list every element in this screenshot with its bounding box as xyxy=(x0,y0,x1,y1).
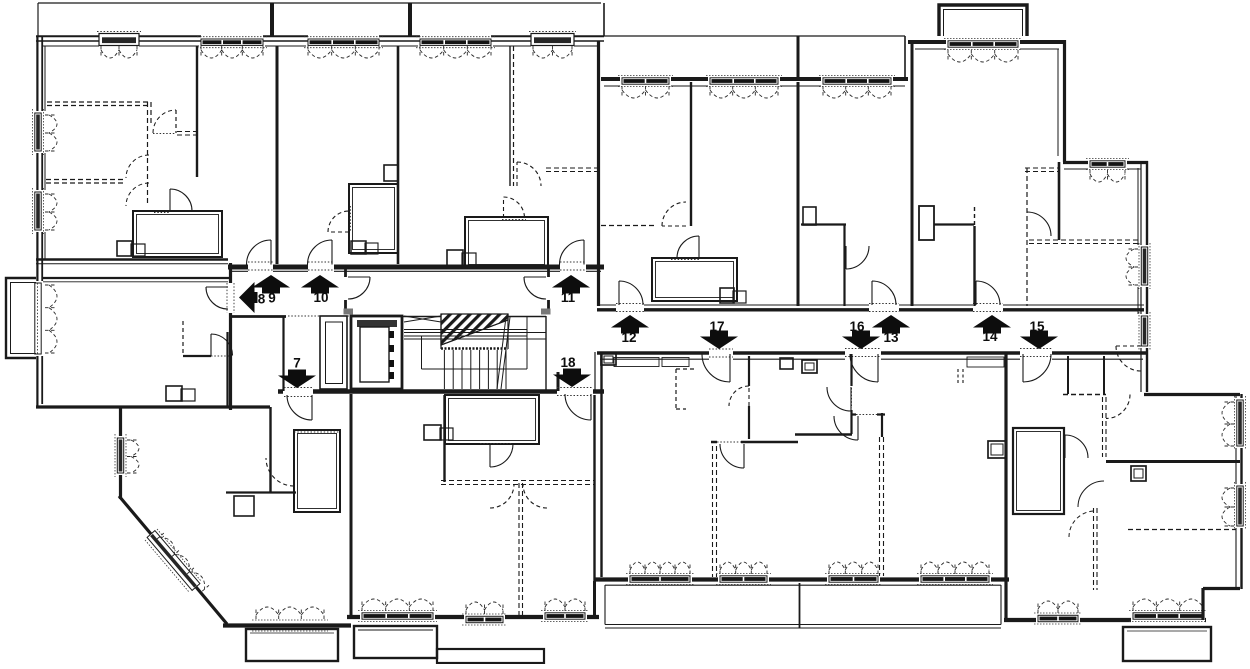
window apt16 bottom 2 xyxy=(921,576,989,582)
apt9 dashed closet wall xyxy=(148,102,152,206)
corridor west end wall xyxy=(229,263,232,410)
apt15 bottom wall xyxy=(1004,618,1206,622)
apt18 small box xyxy=(424,425,441,440)
diagonal window frame xyxy=(147,531,200,591)
apt11 dashed wall xyxy=(546,168,601,172)
casement arcs left-lower xyxy=(127,440,139,473)
apt8 hall top wall xyxy=(43,277,230,279)
svg-text:14: 14 xyxy=(982,329,998,344)
casement arcs SE-1 xyxy=(1222,402,1234,446)
window apt17 bottom 2 xyxy=(720,576,767,582)
apt17 dashed partition xyxy=(713,446,717,577)
apt17 hall wall xyxy=(748,356,750,439)
svg-text:8: 8 xyxy=(258,292,266,307)
apt14 dashed wall mid xyxy=(1029,240,1138,244)
stair top edge xyxy=(402,316,546,318)
casement arcs balcony door xyxy=(45,285,57,353)
stair cross mark xyxy=(404,316,441,322)
corridor top wall left section xyxy=(228,265,604,270)
window apt15 bottom 1 xyxy=(1038,615,1078,621)
apt15 dashed partition v lower xyxy=(1094,508,1098,590)
terrace divider tick 1 xyxy=(270,3,274,36)
corridor top wall right section xyxy=(597,308,1144,311)
apt18 bottom wall xyxy=(347,615,599,619)
window SE right 2 xyxy=(1237,486,1243,526)
casement arcs 16-2 xyxy=(921,562,989,574)
arrow door 7 xyxy=(278,370,316,389)
link corridor wall face xyxy=(594,352,596,390)
exterior wall top-mid section xyxy=(601,77,908,81)
apt15 hall door arc 2 xyxy=(1069,511,1095,537)
svg-text:17: 17 xyxy=(709,319,724,334)
apt15 hall door arc 1 xyxy=(1078,481,1104,507)
left-lower exterior wall xyxy=(119,407,122,499)
bottom wall apts 17-16 xyxy=(594,577,1009,581)
stair treads xyxy=(444,350,506,389)
apt14 door swing xyxy=(1027,212,1051,236)
svg-text:18: 18 xyxy=(560,355,576,370)
casement arcs apt7 bottom xyxy=(256,607,324,619)
casement arcs W5 xyxy=(533,46,572,58)
window on step wall xyxy=(1090,161,1125,167)
window mid-3 xyxy=(823,78,891,84)
exterior wall top-left second face xyxy=(36,40,604,42)
elevator car xyxy=(360,327,389,382)
stair vestibule wall right xyxy=(547,266,550,314)
corridor bottom wall inner face right xyxy=(600,358,1143,360)
balcony below apt18 right xyxy=(437,649,544,663)
corridor top wall right outer face xyxy=(597,304,1144,306)
window W4 xyxy=(420,39,491,45)
apt14 dashed partition v xyxy=(1026,168,1028,306)
stair landing hatched xyxy=(441,314,508,345)
apt12 bathroom door swing xyxy=(677,236,699,258)
apt15 dashed partition h xyxy=(1128,529,1236,531)
apt8 bottom / apt7 top wall xyxy=(36,405,270,408)
apt9 closet arc 3 xyxy=(153,110,176,133)
svg-text:10: 10 xyxy=(313,290,328,305)
apt9 bathroom xyxy=(133,211,222,257)
window left wall 2 xyxy=(35,192,41,230)
apt14 interior wall xyxy=(973,226,975,306)
svg-text:13: 13 xyxy=(883,330,899,345)
window mid-1 xyxy=(622,78,669,84)
apt18 closet door swing xyxy=(490,444,513,467)
apt18 small box 2 xyxy=(440,428,453,440)
hallway-7 left wall xyxy=(282,316,284,391)
inner face top-left wall xyxy=(43,45,597,47)
arrow door 9 xyxy=(252,275,290,294)
apt17 bathroom bottom wall xyxy=(711,441,798,443)
apt15 inner dashed swing xyxy=(1106,395,1130,419)
exterior wall top-right section xyxy=(908,40,1066,44)
window apt18 bottom 3 xyxy=(545,613,585,619)
apt14 dashed wall top xyxy=(1025,168,1059,172)
casement arcs 17-1 xyxy=(630,562,690,574)
apt17 corridor closet box 2 xyxy=(780,358,793,369)
fire door right xyxy=(524,277,546,299)
apt10 dashed partition xyxy=(509,46,511,186)
apt17 bathroom door swing xyxy=(720,444,744,468)
window corridor end xyxy=(1141,316,1147,346)
window apt18 bottom 2 xyxy=(466,616,503,622)
window mid-2 xyxy=(710,78,778,84)
casement arcs SE-2 xyxy=(1222,488,1234,526)
casement arcs right wall 1 xyxy=(1126,249,1138,285)
casement arcs W1 xyxy=(101,46,137,58)
apt9 closet door leaf xyxy=(175,110,177,133)
apt9 closet arc 2 xyxy=(126,183,149,206)
casement arcs apt18-1 xyxy=(362,599,433,611)
apt17 corridor closet box xyxy=(601,353,616,365)
apt17 left wall xyxy=(600,352,602,577)
left exterior wall outer face xyxy=(36,36,38,407)
apt14 interior wall upper dashed xyxy=(974,207,976,226)
apt7 interior wall xyxy=(226,491,296,493)
exterior wall top-left outer face xyxy=(36,35,604,37)
casement arcs mid-3 xyxy=(823,86,891,98)
stair landing edge xyxy=(441,347,508,350)
arrow door 14 xyxy=(973,315,1011,334)
apt7 bathroom xyxy=(294,430,340,512)
door 16 swing xyxy=(850,354,878,382)
apt9 closet box 1 xyxy=(117,241,132,256)
apt12 closet box 2 xyxy=(733,291,746,303)
apt15 bathroom xyxy=(1013,428,1064,514)
svg-text:11: 11 xyxy=(561,290,576,305)
apt10 bathroom xyxy=(349,184,398,253)
apt17 corridor cabinet 2 xyxy=(662,358,689,367)
apt12 room divider wall xyxy=(690,82,692,226)
apt13/14 unit wall xyxy=(911,41,914,306)
arrow door 10 xyxy=(301,275,339,294)
window right wall 1 xyxy=(1141,247,1147,285)
apt12 dashed wardrobe xyxy=(601,225,656,227)
apt9/apt10 unit wall xyxy=(276,46,279,264)
door 13 swing xyxy=(872,281,896,305)
casement arcs 17-2 xyxy=(720,562,767,574)
apt15 closet box xyxy=(1131,466,1146,481)
inner face top-mid wall xyxy=(604,85,905,87)
window W2 xyxy=(201,39,263,45)
apt16 hall wall xyxy=(843,224,845,306)
window apt15 bottom 2 xyxy=(1133,613,1203,619)
apt16 corridor cabinet xyxy=(967,357,1004,367)
apt12 bathroom xyxy=(652,258,737,301)
stair vestibule wall left xyxy=(344,266,347,314)
balcony divider wall xyxy=(797,36,800,79)
balcony below apt15 xyxy=(1123,627,1211,661)
roof line left section xyxy=(38,2,601,4)
apt11 bathroom door swing xyxy=(504,197,525,218)
arrow door 17 xyxy=(700,331,738,350)
apt17 wardrobe dashed xyxy=(676,369,696,409)
casement arcs 15-1 xyxy=(1038,601,1078,613)
balcony front line mid section xyxy=(604,35,905,37)
apt8 inner door swing xyxy=(211,334,233,356)
apt18 dashed partition h xyxy=(441,481,594,485)
casement arcs mid-1 xyxy=(622,86,669,98)
casement arcs 16-1 xyxy=(829,562,878,574)
fire door threshold right xyxy=(541,309,551,315)
apt18 dashed door swing 2 xyxy=(523,484,547,508)
corridor/stair bottom wall xyxy=(278,389,604,393)
arrow door 15 xyxy=(1020,331,1058,350)
apt12 inner door swing xyxy=(662,202,686,226)
apt11 closet box 1 xyxy=(447,250,463,268)
window top-right xyxy=(948,41,1018,47)
svg-text:12: 12 xyxy=(621,330,636,345)
apt11 bathroom xyxy=(465,217,548,268)
arrow door 13 xyxy=(872,315,910,334)
svg-text:16: 16 xyxy=(849,319,865,334)
apt7 closet box xyxy=(234,496,254,516)
apt8 closet box 2 xyxy=(181,389,195,401)
casement arcs left 1 xyxy=(45,115,57,151)
apt16 closet box xyxy=(802,360,817,373)
corridor bottom wall west of hallway xyxy=(230,315,286,318)
apt14 bathroom wall xyxy=(934,223,974,225)
window SE right 1 xyxy=(1237,400,1243,446)
apt15 hall wall right xyxy=(1103,356,1105,394)
apt10 bathroom door swing xyxy=(328,211,349,232)
terrace slab below apts 16-17 xyxy=(605,585,1001,628)
window W3 xyxy=(308,39,379,45)
fire door threshold left xyxy=(344,309,354,315)
apt7 upper room wall xyxy=(226,332,228,407)
apt9 dashed wall to divider xyxy=(177,132,197,136)
window apt16 bottom 1 xyxy=(829,576,878,582)
apt8 closet box 1 xyxy=(166,386,182,401)
apt15 bathroom door swing xyxy=(1065,435,1088,458)
vent shaft xyxy=(320,316,347,389)
door 17 swing xyxy=(702,354,730,382)
stair right edge xyxy=(545,316,547,390)
apt15 NE top wall xyxy=(1144,393,1240,396)
apt16 bathroom wall h xyxy=(795,433,852,435)
apt16 vestibule wall v xyxy=(881,413,883,437)
apt16 bathroom wall v xyxy=(850,354,852,434)
apt16 inner door swing xyxy=(846,246,869,269)
casement arcs W2 xyxy=(201,46,263,58)
balcony inner line xyxy=(944,10,1023,37)
apt10 closet box xyxy=(384,165,398,181)
balcony door left wall xyxy=(35,283,41,354)
apt18 right wall xyxy=(593,395,595,616)
apt9 room divider wall xyxy=(196,46,198,177)
door 10 swing xyxy=(308,240,333,265)
casement arcs apt18-3 xyxy=(545,599,585,611)
apt18 dashed door swing 1 xyxy=(490,484,514,508)
apt14 duct box xyxy=(919,206,934,240)
apt9 bathroom door swing xyxy=(170,189,192,211)
door 7 swing xyxy=(287,395,312,420)
left balcony slab xyxy=(6,278,36,358)
apt7 bathroom door swing xyxy=(266,458,294,486)
apt8/apt9 divider wall xyxy=(36,258,228,261)
apt18 room divider xyxy=(443,395,445,482)
stair break line xyxy=(497,317,510,389)
step wall 18/17 xyxy=(593,581,596,618)
window apt17 bottom 1 xyxy=(630,576,690,582)
apt16 bathroom door swing xyxy=(827,387,851,411)
apt7 entry hall wall xyxy=(269,407,271,492)
balcony end right xyxy=(904,36,906,79)
apt10 room divider wall xyxy=(397,46,400,264)
elevator machine band xyxy=(357,320,397,327)
apt10 dashed door swing xyxy=(517,162,541,186)
casement arcs step window xyxy=(1090,170,1125,182)
apt9 closet box 2 xyxy=(131,244,145,256)
apt15 dashed wall h xyxy=(1063,394,1106,396)
arrow door 11 xyxy=(552,275,590,294)
apt8 entry door swing xyxy=(206,287,228,309)
apt10 closet box 3 xyxy=(365,243,378,254)
casement arcs top-right xyxy=(948,50,1018,62)
arrow door 8 xyxy=(239,282,258,313)
apt16 dashed partition xyxy=(880,437,884,576)
casement arcs apt18-2 xyxy=(466,602,503,614)
right exterior wall upper xyxy=(1063,40,1066,162)
apt8 dashed partition xyxy=(182,321,184,353)
apt16 wardrobe dashes xyxy=(958,369,963,385)
apt14 wall right xyxy=(1058,162,1061,240)
door 14 swing xyxy=(976,281,1000,305)
balcony below apt18 left xyxy=(354,626,437,658)
arrow door 18 xyxy=(553,369,591,388)
door 12 swing xyxy=(619,281,643,305)
apt11 closet box 2 xyxy=(462,253,476,268)
top-right balcony xyxy=(939,5,1027,36)
arrow door 12 xyxy=(611,315,649,334)
stair stub wall xyxy=(557,372,560,391)
apt9 wardrobe dashed top xyxy=(47,102,150,106)
window left wall 1 xyxy=(35,113,41,151)
apt17 corridor cabinet 1 xyxy=(614,358,659,367)
elevator room xyxy=(351,316,402,389)
casement arcs left 2 xyxy=(45,194,57,230)
apt9 dashed line 2 xyxy=(46,180,126,184)
svg-text:9: 9 xyxy=(268,291,276,306)
apt15 left wall xyxy=(1004,354,1007,620)
fire door left xyxy=(348,277,370,299)
SE block lower right wall xyxy=(1201,588,1204,620)
apt12/16 unit wall xyxy=(797,82,800,306)
unit wall left/right sections xyxy=(597,41,600,306)
door 9 swing xyxy=(247,240,272,265)
apt18 left wall xyxy=(350,394,353,616)
apt16 upper wall xyxy=(801,223,846,225)
apt15 closet box on wall xyxy=(988,441,1006,458)
corridor end dashed door xyxy=(1116,346,1141,371)
apt9 closet arc 1 xyxy=(126,155,149,178)
apt8 hall bottom wall xyxy=(183,355,232,357)
casement arcs 15-2 xyxy=(1133,599,1203,611)
stair railing xyxy=(404,316,546,369)
casement arcs mid-2 xyxy=(710,86,778,98)
apt16 vestibule door swing xyxy=(834,416,858,440)
svg-text:7: 7 xyxy=(293,356,301,371)
apt15 dashed partition v upper xyxy=(1103,397,1107,457)
door 11 swing xyxy=(560,240,585,265)
svg-text:15: 15 xyxy=(1029,319,1045,334)
apt16 closet box xyxy=(803,207,816,225)
balcony below apt7 xyxy=(246,629,338,661)
right exterior wall mid xyxy=(1146,161,1148,392)
apt18 closet room xyxy=(445,395,539,444)
arrow door 16 xyxy=(842,331,880,350)
elevator counterweight blocks xyxy=(389,331,394,379)
casement arcs diagonal window xyxy=(157,533,209,591)
apt18 dashed partition v xyxy=(519,483,523,616)
corridor bottom wall right section xyxy=(597,351,1146,355)
apt12 closet box 1 xyxy=(720,288,734,303)
window left-lower xyxy=(117,438,123,473)
diagonal window dark bar xyxy=(152,535,196,587)
apt10 closet box 2 xyxy=(351,241,366,254)
window apt18 bottom 1 xyxy=(362,613,433,619)
apt17 hall dashed door swing xyxy=(729,386,749,406)
window W5 xyxy=(531,34,574,46)
door 18 swing xyxy=(565,394,591,420)
casement arcs W3 xyxy=(308,46,379,58)
casement arcs W4 xyxy=(420,46,491,58)
diagonal bay wall xyxy=(119,496,227,624)
apt7 bottom wall xyxy=(223,623,351,627)
apt15 hall wall xyxy=(1067,356,1069,394)
corridor top wall inner face xyxy=(232,270,601,272)
SE block step wall xyxy=(1203,587,1240,590)
terrace divider tick 2 xyxy=(408,3,412,36)
door 15 swing xyxy=(1023,354,1051,382)
step wall right xyxy=(1063,161,1148,164)
window W1 xyxy=(99,34,139,46)
apt15 thick interior wall xyxy=(1106,460,1240,463)
vent shaft inner xyxy=(326,322,343,384)
terrace divider xyxy=(799,583,801,628)
SE block right wall xyxy=(1240,394,1242,589)
left exterior wall second face xyxy=(41,36,43,404)
apt16 vestibule wall xyxy=(851,413,885,415)
